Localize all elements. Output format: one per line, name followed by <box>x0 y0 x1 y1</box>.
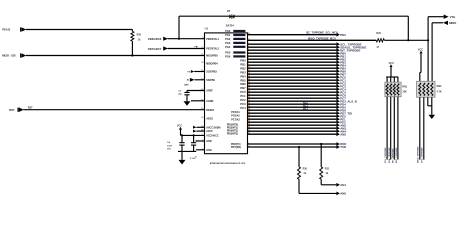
label C5 <box>195 141 199 143</box>
svg-text:PB2: PB2 <box>240 66 246 70</box>
wire RN2 pin4 to ground <box>431 97 433 115</box>
resistor network RN2 <box>417 81 436 97</box>
wire row PD0 <box>248 34 337 36</box>
net arrow PD0 <box>336 33 340 37</box>
resistor R26 <box>131 30 134 56</box>
pin number 3 <box>248 46 250 48</box>
wire row PB2 <box>248 58 337 60</box>
svg-text:MOSI - SDI: MOSI - SDI <box>2 54 16 58</box>
svg-text:A5: A5 <box>187 79 189 82</box>
net arrow AN0 <box>336 192 340 196</box>
wire GND stub2 <box>196 149 205 151</box>
svg-text:GND: GND <box>206 140 212 143</box>
net label PC1 <box>340 78 346 82</box>
label U1 part number <box>210 162 246 165</box>
resistor network RN1 <box>385 82 401 97</box>
wire row PC0 <box>248 76 337 78</box>
pin name MOSI/PB5 inside U1 <box>206 55 218 58</box>
net label SCL_TXPROBE (vertical) <box>385 147 387 163</box>
wire top rail drop to R29 net <box>407 16 409 40</box>
net label RST_TXPROBE (vertical) <box>396 147 398 163</box>
pin number 27 <box>248 118 251 120</box>
pin name PB1 inside U1 <box>240 63 246 67</box>
net arrow INT_TXPROBE <box>336 48 340 52</box>
pin number 15 <box>248 82 251 84</box>
net label PD0 <box>340 33 346 37</box>
net arrow PD6 <box>336 108 340 112</box>
wire RN1 pin1 top stub <box>386 77 388 82</box>
svg-text:MCT: MCT <box>303 107 309 110</box>
wire RN1 pin4 top stub <box>397 77 399 82</box>
wire row PB3 <box>248 61 337 63</box>
net label PD7_TDI <box>340 111 352 115</box>
wire R29 to RN2 <box>384 39 428 41</box>
pin name PC6/A2 inside U1 <box>231 115 240 118</box>
net label PE0 <box>340 114 346 118</box>
pin name PB5 inside U1 <box>240 78 246 82</box>
wire VTG vertical <box>427 17 429 82</box>
net arrow PC7 <box>336 96 340 100</box>
svg-text:VTG_TXPROBE: VTG_TXPROBE <box>422 147 424 163</box>
wire row PB6 <box>248 70 337 72</box>
svg-text:PGA B: PGA B <box>2 28 10 32</box>
net arrow PB5 <box>336 66 340 70</box>
junction C5 top <box>193 134 195 136</box>
wire MISO vertical <box>431 23 433 82</box>
label RN1 value <box>402 91 407 94</box>
net arrow AN4 <box>336 129 340 133</box>
net label AN2 <box>340 123 346 127</box>
pin number 21 <box>248 100 251 102</box>
pin number 10 left of U1 <box>201 47 204 49</box>
svg-text:PG5: PG5 <box>225 51 231 55</box>
wire cap bottom rail <box>178 150 196 152</box>
wire row PD4 <box>248 103 337 105</box>
pin name PD4(INT2) inside U1 <box>227 130 238 133</box>
wire row PC4 <box>248 88 337 90</box>
pin ADC5 flag <box>187 78 195 82</box>
pin number 7 <box>248 58 250 60</box>
label RN2 value <box>437 91 442 94</box>
pin name GND inside U1 <box>206 140 212 143</box>
net arrow PB2 <box>336 57 340 61</box>
wire top rail vertical from PB6 net <box>178 16 180 39</box>
pin name PC0 inside U1 <box>240 90 246 94</box>
wire RN2 pin1 down <box>419 97 421 159</box>
svg-text:PB1: PB1 <box>240 63 246 67</box>
wire row PD6 <box>248 109 337 111</box>
net arrow PE1 <box>336 117 340 121</box>
net arrow PC5 <box>336 90 340 94</box>
net label SCL_TXPROBE <box>340 42 361 46</box>
pin number 10 <box>248 67 251 69</box>
wire MISO to R29 <box>248 39 377 41</box>
wire row PD7_TDI <box>248 112 337 114</box>
pin number 22 <box>248 146 251 148</box>
net text NC1 <box>303 104 308 107</box>
label R31 <box>325 168 330 175</box>
port PB7/ADC7 flag <box>148 46 168 51</box>
ground under RN2 <box>429 115 436 119</box>
wire row PD5 <box>248 106 337 108</box>
svg-text:INT_TXPROBE: INT_TXPROBE <box>392 148 394 163</box>
pin number 14 left of U1 <box>201 61 204 64</box>
resistor R31 <box>320 144 323 185</box>
power VCC arrow RN2 <box>418 49 423 73</box>
pin number 2 <box>248 43 250 45</box>
net label PE1 <box>340 117 346 121</box>
wire row AN5 <box>248 133 337 135</box>
junction R30 top <box>298 146 300 148</box>
net label PD3_ALS_N <box>340 99 357 103</box>
wire PGA_B net <box>26 29 132 31</box>
svg-text:PB7/ADC7: PB7/ADC7 <box>148 47 162 51</box>
resistor R30 <box>298 147 301 193</box>
svg-text:PB4: PB4 <box>240 74 246 78</box>
svg-text:PB7: PB7 <box>240 86 246 90</box>
svg-text:PC1: PC1 <box>240 94 246 98</box>
svg-text:PD3(INT1): PD3(INT1) <box>227 128 238 130</box>
svg-text:VCC/AVCC: VCC/AVCC <box>206 135 219 138</box>
pin name PD3(INT1) inside U1 <box>227 128 238 130</box>
net text NC2 <box>303 101 308 104</box>
pin AVCC flag2 <box>193 130 196 133</box>
wire PB6 to U1 <box>168 38 205 40</box>
pin name PB4 inside U1 <box>240 74 246 78</box>
svg-text:R30: R30 <box>303 168 308 171</box>
net arrow PD5 <box>336 105 340 109</box>
net arrow PD4 <box>336 102 340 106</box>
pin name PG0 with overline block inside U1 <box>225 29 245 33</box>
net label PB2 <box>340 57 346 61</box>
pin number 9 <box>248 64 250 66</box>
pin name PB3 inside U1 <box>240 70 246 74</box>
junction R31 top <box>320 143 322 145</box>
svg-text:PC0: PC0 <box>240 90 246 94</box>
resistor R29 <box>376 39 384 42</box>
op-amp U1 MCU box <box>205 33 248 154</box>
svg-text:MISO/PB4: MISO/PB4 <box>206 63 218 66</box>
svg-text:AN5: AN5 <box>340 132 346 136</box>
wire RST to U1 <box>23 109 204 111</box>
net arrow SCL_TXPROBE <box>336 42 340 46</box>
net arrow SDA/SL_TXPROBE <box>336 45 340 49</box>
pin name PB7 inside U1 <box>240 86 246 90</box>
wire row PB1 <box>248 55 337 57</box>
net label PC2 <box>340 81 346 85</box>
wire row PC6 <box>248 94 337 96</box>
label R30 <box>303 168 308 175</box>
svg-text:PC7/A3: PC7/A3 <box>231 119 240 122</box>
pin number 31 <box>248 130 251 132</box>
net label PB0 <box>340 51 346 55</box>
pin name PD2(INT0) inside U1 <box>227 125 238 127</box>
wire MOSI-SDI to U1 <box>26 55 205 57</box>
pin name PG5 with overline block inside U1 <box>225 51 245 55</box>
net label RST on wire <box>28 107 33 110</box>
label RN1 <box>402 85 407 88</box>
pin number 4 <box>248 48 250 51</box>
pin name SS/PB0 inside U1 <box>206 79 215 82</box>
pin number 22 <box>248 103 251 105</box>
net label PC7 <box>340 96 346 100</box>
ground under C4/C5 <box>179 160 186 165</box>
wire R31 bottom <box>321 184 336 186</box>
pin number 18 <box>248 91 251 93</box>
pin number 18 left of U1 <box>201 126 204 128</box>
net arrow AN3 <box>336 126 340 130</box>
pin name PC4 inside U1 <box>240 106 246 110</box>
wire RXD row <box>248 143 337 145</box>
pin number 26 <box>248 115 251 117</box>
svg-text:PG6: PG6 <box>225 55 231 59</box>
net label AN0 <box>340 192 346 196</box>
pin number 13 left of U1 <box>201 78 204 80</box>
net label VTG_TX (vertical) <box>422 147 424 163</box>
capacitor C9 <box>184 91 189 102</box>
wire row PB7 <box>248 73 337 75</box>
svg-text:PB3: PB3 <box>240 70 246 74</box>
pin name PC5/A1 inside U1 <box>231 111 240 114</box>
svg-text:4.7K: 4.7K <box>437 91 442 94</box>
pin number 19 <box>248 94 251 96</box>
label U1 <box>205 27 209 31</box>
net label AN3 <box>340 126 346 130</box>
net arrow TXD <box>336 145 340 149</box>
no-connect mark <box>195 155 197 158</box>
port VTG flag <box>444 15 456 19</box>
capacitor C5 <box>191 135 196 151</box>
wire row AN4 <box>248 130 337 132</box>
net label SDA/SL_TXPROBE <box>340 45 366 49</box>
pin number 12 left of U1 <box>201 70 204 72</box>
port PB6/ADC6 flag <box>148 37 168 42</box>
pin name PB6 inside U1 <box>240 82 246 86</box>
wire RN1 pin4 down <box>397 97 399 160</box>
svg-text:ARF: ARF <box>184 84 189 87</box>
wire row AN3 <box>248 127 337 129</box>
wire row PC2 <box>248 82 337 84</box>
net label PB5 <box>340 66 346 70</box>
svg-text:PB6: PB6 <box>240 82 246 86</box>
junction R29 net / VTG drop <box>427 39 429 41</box>
wire AGND stub <box>191 100 205 102</box>
net arrow AN5 <box>336 132 340 136</box>
port RST (input flag) <box>9 107 24 112</box>
pin name ADC6 inside U1 <box>206 118 213 121</box>
net label AN4 <box>340 129 346 133</box>
pin name VCC/AVCC inside U1 <box>206 135 219 138</box>
pin name PD5(INT3) inside U1 <box>227 134 238 136</box>
net arrow PB0 <box>336 51 340 55</box>
svg-text:10uF: 10uF <box>167 145 173 147</box>
pin number 17 <box>248 88 251 90</box>
wire R30 bottom <box>299 192 336 194</box>
pin number 6 <box>248 55 250 57</box>
svg-text:GND: GND <box>206 149 212 152</box>
wire row PB0 <box>248 52 337 54</box>
net arrow PC2 <box>336 81 340 85</box>
pin name PB2 inside U1 <box>240 66 246 70</box>
net label PD5 <box>340 105 346 109</box>
svg-text:PD0: PD0 <box>340 33 346 37</box>
net label PB6 <box>340 69 346 73</box>
svg-text:PB7/XTAL2: PB7/XTAL2 <box>206 48 219 51</box>
svg-text:RST: RST <box>9 108 15 112</box>
label D5 <box>227 10 231 13</box>
wire row PC1 <box>248 79 337 81</box>
net text MISO_TXPROBE <box>308 37 336 41</box>
wire VCC pin <box>181 134 205 136</box>
svg-text:PB5: PB5 <box>240 78 246 82</box>
junction top rail / PB6 wire <box>178 38 180 40</box>
pin name PB0 inside U1 <box>240 59 246 63</box>
wire RN1 pin2 top stub <box>390 77 392 82</box>
svg-text:PD7(SS): PD7(SS) <box>231 146 241 149</box>
svg-text:I2C_TXPROBE_SCL_MCU: I2C_TXPROBE_SCL_MCU <box>306 31 338 35</box>
label R29 value <box>376 46 379 49</box>
net label PE2 <box>340 120 346 124</box>
pin AVCC flag1 <box>193 126 196 129</box>
net arrow AN1 <box>336 183 340 187</box>
pin number 9 left of U1 <box>202 37 204 39</box>
svg-text:AN1: AN1 <box>340 183 346 187</box>
wire row PC7 <box>248 97 337 99</box>
pin number 8 <box>248 61 250 63</box>
svg-text:VTG: VTG <box>450 15 456 19</box>
capacitor C4 <box>179 135 184 151</box>
svg-text:RN2: RN2 <box>437 85 442 88</box>
net label PB4 <box>340 63 346 67</box>
net arrow PE0 <box>336 114 340 118</box>
pin name PD7(SS) inside U1 <box>231 146 241 149</box>
net arrow PE2 <box>336 120 340 124</box>
pin name SCK/PB3 inside U1 <box>206 71 217 74</box>
wire RN1 pin1 down <box>386 97 388 160</box>
net arrow PC6 <box>336 93 340 97</box>
wire RN1 pin3 top stub <box>393 77 395 82</box>
pin name PC3 inside U1 <box>240 102 246 106</box>
pin number 13 <box>248 76 251 78</box>
port MISO flag <box>443 21 457 25</box>
pin name PG4 with overline block inside U1 <box>225 45 245 49</box>
pin number 29 left of U1 <box>201 108 204 110</box>
pin name PG2 with overline block inside U1 <box>225 37 245 41</box>
svg-text:TXD: TXD <box>340 145 346 149</box>
wire row PC5 <box>248 91 337 93</box>
wire RN2 pin3 to gnd join <box>428 97 432 106</box>
svg-text:16V: 16V <box>167 149 171 151</box>
net label PB1 <box>340 54 346 58</box>
port MOSI-SDI (input flag) <box>2 53 26 58</box>
svg-text:VCC: VCC <box>389 62 394 65</box>
net arrow AN2 <box>336 123 340 127</box>
pin number 20 left of U1 <box>201 89 204 91</box>
net label PC4 <box>340 87 346 91</box>
svg-text:10K: 10K <box>402 91 407 94</box>
net label AN1 <box>340 183 346 187</box>
ground under C9 <box>184 101 191 106</box>
svg-text:SS/PB0: SS/PB0 <box>206 79 215 82</box>
wire row PE0 <box>248 115 337 117</box>
power VCC arrow RN1 <box>389 62 394 77</box>
pin number 5 left of U1 <box>202 148 204 150</box>
net arrow PC4 <box>336 87 340 91</box>
svg-text:AVCC: AVCC <box>206 130 213 133</box>
net arrow PB7 <box>336 72 340 76</box>
svg-text:PG1: PG1 <box>225 33 231 37</box>
pin name PB7/XTAL2 inside U1 <box>206 48 219 51</box>
svg-text:MISO_TXPROBE: MISO_TXPROBE <box>418 146 420 163</box>
net label RXD <box>340 142 346 146</box>
svg-text:PD5(INT3): PD5(INT3) <box>227 134 238 136</box>
pin number 30 <box>248 127 251 129</box>
net label PC3 <box>340 84 346 88</box>
pin number 5 <box>248 52 250 54</box>
wire RN2 VCC jog <box>420 73 421 82</box>
net arrow PB1 <box>336 54 340 58</box>
wire VTG horizontal <box>428 16 444 18</box>
pin name PC2 inside U1 <box>240 98 246 102</box>
svg-text:PC5/A1: PC5/A1 <box>231 111 240 114</box>
wire row PB4 <box>248 64 337 66</box>
net label INT_TXPROBE <box>340 48 360 52</box>
pin name AVCC inside U1 <box>206 130 213 133</box>
net label AN5 <box>340 132 346 136</box>
wire row PB5 <box>248 67 337 69</box>
pin name AGND inside U1 <box>206 100 213 103</box>
pin number 25 <box>248 112 251 114</box>
svg-text:PC6/A2: PC6/A2 <box>231 115 240 118</box>
svg-text:R26: R26 <box>137 33 142 36</box>
pin number 32 <box>248 133 251 135</box>
net arrow PD3_ALS_N <box>336 99 340 103</box>
net arrow PC0 <box>336 75 340 79</box>
wire AREF stub <box>187 90 205 92</box>
svg-text:VCC: VCC <box>177 124 182 127</box>
pin number 31 <box>248 39 251 41</box>
label C9 value <box>178 90 182 95</box>
svg-text:SDA_TXPROBE: SDA_TXPROBE <box>388 147 391 163</box>
pin name PC1 inside U1 <box>240 94 246 98</box>
wire AVCC stub2 <box>196 130 204 132</box>
net arrow PC1 <box>336 78 340 82</box>
svg-text:PD2(INT0): PD2(INT0) <box>227 125 238 127</box>
pin number 12 <box>248 73 251 75</box>
wire row INT_TXPROBE <box>248 49 337 51</box>
net label PC0 <box>340 75 346 79</box>
port PGA_B (input flag) <box>2 27 26 32</box>
pin number 21 left of U1 <box>201 99 204 101</box>
pin number 19 left of U1 <box>201 117 204 119</box>
net label PC6 <box>340 93 346 97</box>
svg-text:U1: U1 <box>205 27 209 31</box>
net arrow RXD <box>336 142 340 146</box>
net arrow PB6 <box>336 69 340 73</box>
pin name PC7/A3 inside U1 <box>231 119 240 122</box>
svg-text:RST_TXPROBE: RST_TXPROBE <box>396 147 398 163</box>
svg-text:RESET: RESET <box>206 109 215 112</box>
net label MISO_TX (vertical) <box>418 146 420 163</box>
wire MISO horizontal <box>432 22 443 24</box>
pin number 30 <box>248 33 251 35</box>
net label ARF <box>184 84 189 87</box>
pin number 16 <box>248 85 251 87</box>
pin name RESET inside U1 <box>206 109 215 112</box>
svg-text:BAT54: BAT54 <box>226 23 235 27</box>
svg-text:ATMEGA16M1/32M1/64M1-P5-OFF: ATMEGA16M1/32M1/64M1-P5-OFF <box>210 162 246 165</box>
svg-text:VCC: VCC <box>418 49 423 52</box>
